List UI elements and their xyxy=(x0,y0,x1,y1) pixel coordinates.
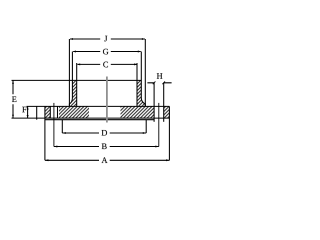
label C xyxy=(103,62,108,68)
label A xyxy=(102,157,108,163)
label E xyxy=(12,96,16,102)
arrow G right xyxy=(138,51,141,53)
label J xyxy=(104,36,107,42)
raised face bottom line xyxy=(45,119,154,121)
G left extension line / hub left outer wall xyxy=(69,52,72,107)
arrow F bottom xyxy=(27,115,29,118)
C left extension line / socket bore left wall xyxy=(76,63,78,106)
arrow B right xyxy=(155,146,158,148)
hatch flange right inner band xyxy=(121,106,155,118)
dim line H (two outside segments) xyxy=(147,82,171,84)
flange right edge / A right extension xyxy=(168,106,170,160)
hub top surface + E top extension line xyxy=(12,79,142,81)
hatch flange right edge band xyxy=(164,106,170,118)
bolt hole left: right edge xyxy=(57,106,59,118)
flange vertical centerline xyxy=(106,77,108,123)
arrow E top xyxy=(12,81,14,84)
label G xyxy=(103,49,108,55)
arrow D left xyxy=(63,132,66,134)
F extension bracket vertical xyxy=(36,106,38,119)
dim line C xyxy=(78,63,137,65)
dim line G xyxy=(73,51,141,53)
arrow E bottom xyxy=(12,115,14,118)
dim line D xyxy=(62,132,146,134)
bolt hole left: left edge xyxy=(49,106,51,118)
dim line A xyxy=(45,159,169,161)
D left extension xyxy=(61,120,63,133)
label D xyxy=(102,130,107,136)
hatch hub left wall xyxy=(69,80,76,106)
flange top surface + F top extension xyxy=(27,105,170,107)
E dimension line xyxy=(12,80,14,118)
bolt hole right: left edge / H left extension xyxy=(153,83,155,122)
arrow J left xyxy=(70,38,73,40)
arrow A left xyxy=(45,159,48,161)
bolt centerline right / B right extension xyxy=(158,103,160,147)
arrow A right xyxy=(166,159,169,161)
dim line B xyxy=(54,146,159,148)
label F xyxy=(22,107,26,113)
J right extension line xyxy=(144,39,146,106)
arrow F top xyxy=(27,107,29,110)
hatch hub right wall xyxy=(137,80,145,106)
label H xyxy=(157,73,163,79)
label B xyxy=(102,144,107,150)
hatch flange left inner band xyxy=(59,106,89,118)
hatch flange left edge band xyxy=(45,106,51,118)
D right extension xyxy=(145,120,147,133)
arrow C right xyxy=(134,63,137,65)
C right extension line / socket bore right wall xyxy=(136,63,138,106)
bolt centerline left / B left extension xyxy=(53,103,55,147)
G right extension line / hub right outer wall xyxy=(141,52,145,107)
bolt hole right: right edge / H right extension xyxy=(163,83,165,122)
arrow J right xyxy=(142,38,145,40)
arrow C left xyxy=(77,63,80,65)
arrow B left xyxy=(54,146,57,148)
arrow tick H right xyxy=(162,81,165,84)
flange bottom + E/F bottom extension xyxy=(12,117,170,119)
arrow tick H left xyxy=(153,81,156,84)
arrow D right xyxy=(143,132,146,134)
flange left edge / A left extension xyxy=(44,106,46,160)
J left extension line xyxy=(68,39,70,106)
F dimension line xyxy=(27,106,29,118)
dim line J xyxy=(70,38,145,40)
arrow G left xyxy=(73,51,76,53)
